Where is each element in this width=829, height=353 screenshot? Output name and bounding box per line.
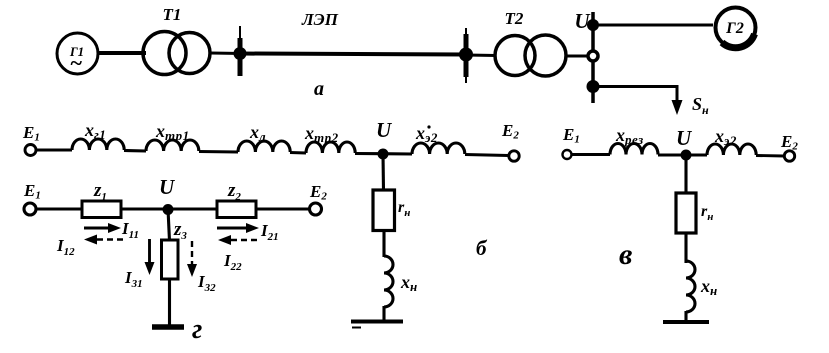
svg-text:xн: xн [700, 276, 718, 298]
generator G1 [57, 33, 98, 75]
inductor x_g1 [72, 139, 124, 150]
wire LEP line [240, 54, 466, 55]
wire [199, 150, 238, 154]
svg-text:Г2: Г2 [725, 20, 744, 37]
svg-text:I21: I21 [260, 221, 279, 243]
svg-text:U: U [376, 118, 393, 142]
node U dot (v) [681, 150, 692, 161]
terminal E1 (g) [24, 203, 36, 215]
junction dot bus1 [234, 47, 247, 60]
generator G2 [716, 8, 756, 48]
svg-text:Е2: Е2 [309, 182, 327, 203]
wire to ground (v) [684, 311, 687, 320]
ground (b) [351, 322, 403, 328]
svg-text:Е2: Е2 [780, 132, 798, 153]
wire [290, 151, 306, 155]
wire T1 to bus1 [210, 52, 242, 56]
inductor x_rez [610, 144, 658, 155]
inductor x_e2 (v) [707, 144, 756, 155]
wire to E2 (g) [256, 207, 310, 210]
current arrow I21 [217, 223, 259, 233]
svg-text:I11: I11 [121, 219, 139, 241]
svg-text:~: ~ [70, 50, 83, 75]
svg-text:xэ2: xэ2 [415, 123, 438, 145]
resistor z1 [82, 201, 121, 218]
junction open circle (T2 tap) [588, 51, 598, 61]
svg-text:xэ2: xэ2 [714, 126, 737, 148]
resistor r_n (v) [676, 193, 696, 233]
svg-text:в: в [619, 238, 632, 271]
dot above э in x_э2 label [427, 125, 430, 128]
wire T2 to bus U [566, 55, 593, 58]
junction dot bus2 [459, 48, 473, 62]
svg-text:г: г [192, 314, 202, 345]
wire (v) [684, 233, 687, 263]
svg-text:xг1: xг1 [84, 120, 106, 142]
inductor x_n (b) vertical [384, 256, 393, 307]
svg-text:Е1: Е1 [23, 181, 41, 202]
bus U vertical [591, 12, 595, 103]
wire to node U [355, 152, 412, 156]
svg-text:xтр2: xтр2 [304, 123, 339, 145]
wire to U (g) [121, 207, 217, 210]
resistor r_n (b) [373, 190, 395, 231]
svg-text:а: а [314, 78, 324, 100]
svg-text:Е1: Е1 [22, 123, 40, 144]
wire to ground (b) [382, 306, 385, 320]
bus bar 2 [465, 28, 467, 36]
terminal E2 (v) [784, 151, 794, 161]
wire bus2 to T2 [466, 54, 496, 58]
svg-text:z1: z1 [93, 180, 107, 203]
wire to E2 (v) [756, 154, 784, 157]
resistor z3 [162, 240, 179, 279]
svg-text:I12: I12 [56, 236, 75, 258]
inductor x_tr1 [146, 140, 199, 151]
ground (g) [152, 324, 184, 330]
wire U down (b) [381, 154, 385, 191]
wire to ground (g) [168, 279, 171, 325]
wire to load arrow [593, 87, 677, 105]
node dot top [587, 19, 599, 31]
svg-text:xн: xн [400, 272, 418, 294]
svg-text:Т1: Т1 [163, 5, 182, 24]
current arrow I12 (dashed) [84, 235, 123, 245]
transformer T2 [495, 9, 566, 76]
wire to U (v) [658, 153, 707, 156]
current arrow I31 [145, 239, 155, 275]
svg-text:rн: rн [701, 203, 713, 223]
svg-text:Е2: Е2 [501, 121, 519, 142]
arrowhead S_n [672, 100, 683, 115]
inductor x_n (v) vertical [686, 261, 695, 312]
wire to E2 [465, 155, 509, 156]
wire [124, 149, 146, 153]
current arrow I11 [84, 223, 121, 233]
wire [571, 153, 610, 156]
terminal E2 (g) [310, 203, 322, 215]
wire to generator G2 [593, 23, 713, 26]
terminal E1 (b) [25, 145, 36, 156]
svg-text:U: U [676, 126, 693, 150]
terminal E1 (v) [563, 150, 572, 159]
svg-text:xл: xл [249, 122, 266, 144]
inductor x_tr2 [306, 142, 355, 153]
node U dot (b) [378, 149, 389, 160]
terminal E2 (b) [509, 151, 519, 161]
svg-text:U: U [159, 175, 176, 199]
svg-text:I22: I22 [223, 251, 242, 273]
svg-text:б: б [476, 236, 488, 260]
transformer T1 [143, 5, 210, 75]
svg-text:ЛЭП: ЛЭП [301, 10, 339, 29]
node U dot (g) [163, 204, 174, 215]
bus bar 1 [239, 26, 241, 76]
svg-text:rн: rн [398, 199, 410, 219]
inductor x_e2 (b) [412, 143, 465, 154]
wire [36, 207, 82, 210]
current arrow I32 (dashed) [187, 241, 197, 277]
resistor z2 [217, 201, 256, 218]
node dot bottom [587, 80, 600, 93]
svg-text:xрез: xрез [615, 125, 644, 147]
svg-text:Е1: Е1 [562, 125, 580, 146]
wire (b) [382, 230, 385, 257]
current arrow I22 (dashed) [218, 235, 257, 245]
svg-text:xтр1: xтр1 [155, 121, 190, 143]
wire U down (v) [684, 155, 687, 194]
svg-text:I32: I32 [197, 272, 216, 294]
svg-text:I31: I31 [124, 268, 143, 290]
wire gen to T1 [97, 51, 146, 55]
wire [36, 148, 72, 151]
inductor x_l [238, 141, 290, 152]
svg-text:Sн: Sн [692, 94, 709, 117]
wire U down (g) [168, 209, 170, 241]
svg-text:z2: z2 [227, 180, 241, 203]
svg-text:Т2: Т2 [505, 9, 524, 28]
ground (v) [663, 320, 709, 324]
